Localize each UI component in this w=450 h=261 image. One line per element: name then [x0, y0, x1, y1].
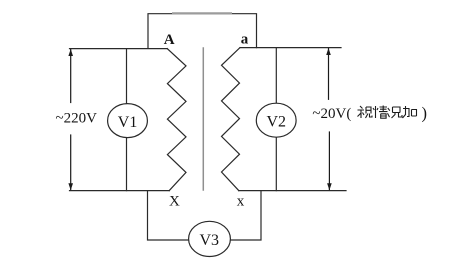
dimension arrow ~20V top arrowhead — [326, 48, 331, 55]
terminal label a — [241, 32, 249, 48]
value label ~20V( latin part — [312, 106, 351, 122]
voltmeter V2 — [256, 103, 296, 137]
wire node A horizontal (top-left) — [70, 48, 168, 50]
voltmeter V3 — [189, 221, 231, 256]
voltmeter V1 — [108, 104, 148, 138]
wire x to V3 (right branch) — [230, 191, 261, 240]
voltmeter V3 label — [200, 232, 220, 249]
svg-text:A: A — [164, 32, 175, 48]
svg-text:V2: V2 — [267, 113, 287, 130]
transformer core — [202, 48, 204, 190]
svg-text:): ) — [422, 104, 428, 123]
secondary winding L2 (a-x) — [222, 48, 241, 191]
terminal label X — [169, 193, 180, 209]
svg-text:x: x — [237, 194, 245, 210]
voltmeter V2 label — [267, 113, 287, 130]
svg-text:~220V: ~220V — [56, 110, 98, 126]
dimension arrow ~220V top arrowhead — [68, 49, 73, 56]
dimension arrow ~20V lower segment — [328, 132, 330, 190]
wire V2 bottom lead — [275, 137, 277, 190]
svg-text:V3: V3 — [200, 232, 220, 249]
wire V2 top lead — [275, 48, 277, 104]
value label CJK 情 — [373, 106, 388, 119]
value label CJK 况 — [388, 107, 403, 118]
value label CJK 加 — [403, 106, 417, 118]
primary winding L1 (A-X) — [167, 49, 186, 191]
value label ~220V — [56, 110, 98, 126]
svg-text:~20V(: ~20V( — [312, 106, 351, 122]
dimension arrow ~20V bottom arrowhead — [327, 183, 332, 190]
terminal label A — [164, 32, 175, 48]
wire V1 top lead — [126, 49, 128, 104]
terminal label x — [237, 194, 245, 210]
wire node X horizontal (bottom-left) — [70, 190, 170, 192]
value label CJK 视 — [358, 106, 373, 118]
wire X to V3 (left branch) — [148, 191, 189, 240]
svg-text:V1: V1 — [118, 114, 138, 131]
wire top jumper gray overlap segment — [173, 12, 231, 14]
dimension arrow ~220V lower segment — [70, 135, 72, 190]
svg-text:a: a — [241, 32, 249, 48]
voltmeter V1 label — [118, 114, 138, 131]
dimension arrow ~220V upper segment — [70, 50, 72, 103]
wire node a horizontal (top-right) — [240, 47, 341, 49]
dimension arrow ~20V upper segment — [328, 49, 330, 100]
value label CJK fullwidth close paren — [422, 104, 428, 123]
wire V1 bottom lead — [126, 138, 128, 191]
dimension arrow ~220V bottom arrowhead — [68, 183, 73, 190]
wire top jumper from node A side to node a side — [148, 14, 257, 49]
wire node x horizontal (bottom-right) — [239, 190, 346, 192]
svg-text:X: X — [169, 193, 180, 209]
